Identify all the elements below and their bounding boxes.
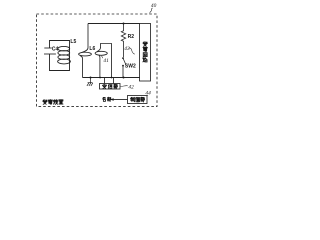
text 各部 — [103, 97, 111, 101]
coil L6 — [79, 52, 92, 56]
arrow to each part — [110, 98, 128, 101]
junction dot ground tap — [90, 77, 92, 79]
switch SW2 — [122, 57, 126, 77]
text 受信部 — [102, 84, 117, 88]
label 41 — [103, 58, 109, 64]
coil L6 wire — [80, 24, 88, 78]
dashed enclosure of receiving device 40 — [37, 14, 158, 107]
junction dot antenna left — [99, 77, 101, 79]
coil L5 — [58, 46, 71, 63]
label 44 — [145, 91, 151, 97]
receiver box 受信部 — [100, 84, 121, 90]
wire: left resonant loop — [50, 41, 70, 71]
leader for 42 — [120, 85, 127, 88]
junction dot SW2 bus — [123, 77, 125, 79]
leader for 40 — [150, 8, 153, 13]
leader for 44 — [147, 94, 148, 97]
svg-text:42: 42 — [128, 84, 134, 90]
label L5 — [70, 39, 76, 45]
power receiving circuit box (受電回路) — [140, 24, 151, 82]
label R2 — [128, 34, 135, 40]
text 受電装置 caption — [43, 100, 63, 105]
wire: top rail — [88, 23, 140, 25]
control box 制御部 — [128, 96, 148, 104]
svg-text:44: 44 — [145, 91, 151, 97]
text 受電回路 vertical — [143, 42, 148, 62]
wire stub receiver left — [104, 78, 106, 84]
svg-text:L6: L6 — [89, 46, 95, 52]
label L6 — [89, 46, 95, 52]
ground — [87, 78, 93, 86]
svg-text:SW2: SW2 — [125, 63, 136, 69]
antenna 41 loop wire — [97, 44, 112, 78]
svg-text:L5: L5 — [70, 39, 76, 45]
wire stub receiver right — [113, 78, 115, 84]
label C4 — [52, 46, 59, 52]
wire: bottom bus — [83, 77, 141, 79]
resistor R2 — [121, 24, 125, 58]
capacitor C4 — [44, 48, 56, 54]
leader for 43 — [129, 48, 135, 54]
antenna coil 41 — [95, 51, 107, 55]
leader for 41 — [102, 56, 103, 58]
junction dot rail R2 — [123, 23, 125, 25]
junction dot antenna right — [111, 77, 113, 79]
svg-text:R2: R2 — [128, 34, 135, 40]
label 40 — [151, 3, 157, 9]
svg-text:43: 43 — [124, 46, 130, 52]
label 43 — [124, 46, 130, 52]
svg-text:41: 41 — [103, 58, 109, 64]
svg-text:C4: C4 — [52, 46, 59, 52]
label SW2 — [125, 63, 136, 69]
label 42 — [128, 84, 134, 90]
text 制御部 — [130, 97, 144, 102]
